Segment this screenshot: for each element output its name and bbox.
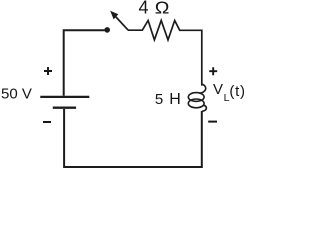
inductor plus sign — [209, 67, 217, 75]
battery plus sign — [44, 67, 52, 75]
inductor minus sign — [208, 121, 217, 123]
inductor L 5H loop 1 — [188, 93, 204, 102]
svg-text:Ω: Ω — [155, 0, 170, 17]
wire bottom and right lower vertical — [64, 109, 202, 167]
svg-text:50 V: 50 V — [1, 85, 32, 102]
svg-text:4: 4 — [139, 0, 149, 18]
svg-text:5: 5 — [155, 91, 163, 108]
switch S1 lever — [115, 16, 129, 31]
inductor L 5H exit curl — [202, 105, 207, 111]
wire left vertical + top-left segment to switch dot — [64, 30, 105, 96]
inductor L 5H loop 2 — [188, 99, 204, 108]
battery V1 50V top plate (long, +) — [40, 96, 89, 98]
battery minus sign — [43, 121, 51, 123]
switch S1 arrowhead — [111, 12, 118, 19]
svg-text:V: V — [213, 81, 223, 98]
switch S1 node dot — [104, 27, 110, 33]
svg-text:(t): (t) — [229, 83, 245, 100]
inductor L 5H entry curl — [199, 84, 205, 93]
svg-text:H: H — [169, 91, 181, 108]
battery V1 50V bottom plate (short, -) — [53, 106, 76, 108]
resistor R 4-ohm zigzag with leads and top-right corner — [128, 21, 202, 86]
